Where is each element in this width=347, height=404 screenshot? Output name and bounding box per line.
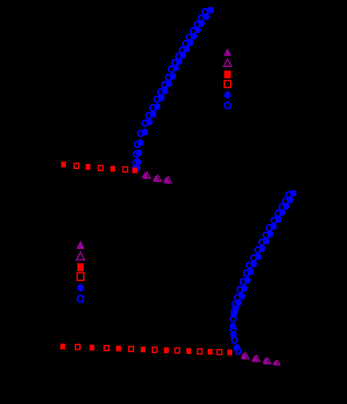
node T1-open-18 xyxy=(138,130,143,136)
node LB-ocirc xyxy=(77,295,83,302)
node T1-open-16 xyxy=(146,113,151,119)
node LB-osq xyxy=(77,273,84,280)
node B2-filled-9 xyxy=(164,347,169,353)
node B2-filled-15 xyxy=(227,350,232,356)
node T1-filled-18 xyxy=(142,129,148,136)
node B1-open-8 xyxy=(259,239,264,245)
node T1-open-17 xyxy=(142,120,147,126)
node LT-ftri xyxy=(223,48,231,55)
node LT-osq xyxy=(224,81,230,88)
node B2-filled-5 xyxy=(116,346,121,352)
node B1-filled-10 xyxy=(255,253,261,260)
node B1-filled-9 xyxy=(259,245,265,252)
node T1-open-13 xyxy=(158,89,163,95)
node T1-filled-19 xyxy=(137,139,143,146)
node T1-filled-20 xyxy=(136,149,142,156)
node T1-open-19 xyxy=(135,141,140,147)
node T3-filled-1 xyxy=(142,172,149,178)
node T1-open-6 xyxy=(183,41,188,47)
node T3-open-2 xyxy=(155,175,162,181)
node T2-open-4 xyxy=(98,166,103,171)
node B1-filled-15 xyxy=(239,293,245,300)
node LT-otri xyxy=(224,59,232,66)
node B1-filled-19 xyxy=(230,323,236,330)
node T1-open-14 xyxy=(154,96,159,102)
node T1-filled-21 xyxy=(135,158,141,165)
node B2-open-2 xyxy=(75,345,80,350)
node T1-open-4 xyxy=(191,28,196,34)
node T1-open-5 xyxy=(187,34,192,40)
node LB-ftri xyxy=(76,241,85,249)
node B1-filled-7 xyxy=(267,231,273,238)
node T1-filled-9 xyxy=(176,58,182,65)
node T2-open-6 xyxy=(123,167,128,172)
node T1-open-2 xyxy=(198,15,203,21)
node B1-filled-3 xyxy=(283,203,289,210)
node B3-filled-1 xyxy=(240,352,247,358)
node B1-filled-8 xyxy=(263,238,269,245)
node T1-open-10 xyxy=(169,66,174,72)
node LB-otri xyxy=(77,252,85,260)
node T1-open-22 xyxy=(133,166,138,172)
node T1-filled-10 xyxy=(173,64,179,71)
node B1-filled-21 xyxy=(234,344,240,351)
node B1-open-17 xyxy=(232,309,237,315)
node B1-open-16 xyxy=(233,302,238,308)
node T1-open-15 xyxy=(150,105,155,111)
node B1-open-4 xyxy=(275,210,280,216)
node B3-open-3 xyxy=(264,358,271,364)
node B1-open-3 xyxy=(279,204,284,210)
node T1-open-3 xyxy=(194,22,199,28)
node T2-filled-5 xyxy=(110,166,115,172)
node T1-filled-11 xyxy=(170,73,176,80)
node T1-filled-13 xyxy=(162,87,168,94)
node T3-open-1 xyxy=(144,172,151,178)
node B1-open-14 xyxy=(237,287,242,293)
node T2-filled-7 xyxy=(132,168,137,174)
node T1-filled-17 xyxy=(146,119,152,126)
node B1-open-15 xyxy=(235,295,240,301)
node B1-open-6 xyxy=(267,225,272,231)
node B2-open-12 xyxy=(197,349,202,354)
node T1-filled-8 xyxy=(180,52,186,59)
node LB-fsq xyxy=(77,263,83,271)
node B1-open-5 xyxy=(271,217,276,223)
node B1-filled-13 xyxy=(244,277,250,284)
node B1-filled-17 xyxy=(233,305,239,312)
node B2-filled-3 xyxy=(90,345,95,351)
node B1-filled-5 xyxy=(275,216,281,223)
node T1-open-11 xyxy=(166,75,171,81)
node B3-filled-4 xyxy=(273,360,278,364)
node LT-fcirc xyxy=(224,92,231,99)
node T1-open-8 xyxy=(176,53,181,59)
node B1-open-11 xyxy=(247,262,252,268)
node T1-filled-5 xyxy=(191,33,197,40)
node B2-filled-13 xyxy=(208,349,213,355)
node LB-fcirc xyxy=(77,284,84,291)
node T1-open-21 xyxy=(133,160,138,166)
node T1-filled-3 xyxy=(198,20,204,27)
node B1-open-20 xyxy=(232,337,237,343)
node T1-filled-4 xyxy=(195,26,201,33)
node B1-open-1 xyxy=(286,192,291,198)
node B1-open-21 xyxy=(235,348,240,354)
node T1-filled-7 xyxy=(183,45,189,52)
node T3-filled-2 xyxy=(153,175,160,181)
node T1-filled-14 xyxy=(158,95,164,102)
node T1-open-20 xyxy=(134,151,139,157)
node B1-filled-6 xyxy=(270,223,276,230)
node B1-open-7 xyxy=(263,232,268,238)
node T1-filled-22 xyxy=(134,165,140,172)
node B1-open-9 xyxy=(255,247,260,253)
node B3-filled-3 xyxy=(262,357,269,363)
node B3-open-4 xyxy=(274,361,279,365)
node B1-filled-20 xyxy=(230,331,236,338)
node T2-filled-1 xyxy=(61,162,66,168)
node T2-filled-3 xyxy=(86,164,91,170)
node T1-open-12 xyxy=(162,82,167,88)
node B1-open-10 xyxy=(251,255,256,261)
node T1-filled-16 xyxy=(150,111,156,118)
node T1-filled-2 xyxy=(203,13,209,20)
node LT-ocirc xyxy=(225,102,231,108)
node B1-filled-1 xyxy=(290,190,296,197)
node T1-filled-6 xyxy=(187,39,193,46)
node B1-filled-2 xyxy=(287,196,293,203)
node B2-open-14 xyxy=(217,350,222,355)
node T2-open-2 xyxy=(74,163,79,168)
node B2-filled-11 xyxy=(186,348,191,354)
node B1-filled-18 xyxy=(231,311,237,318)
node B1-open-19 xyxy=(231,326,236,332)
node T1-open-1 xyxy=(202,9,207,15)
node B1-open-12 xyxy=(244,270,249,276)
node T1-filled-15 xyxy=(154,103,160,110)
node B3-filled-2 xyxy=(252,355,259,361)
node B1-open-2 xyxy=(283,198,288,204)
node B3-open-1 xyxy=(242,353,249,359)
node T3-open-3 xyxy=(165,177,172,183)
node LT-fsq xyxy=(224,71,231,79)
node B1-filled-11 xyxy=(251,261,257,268)
node B1-filled-14 xyxy=(241,285,247,292)
node B2-open-4 xyxy=(104,346,109,351)
node B1-open-13 xyxy=(240,279,245,285)
node T1-filled-1 xyxy=(208,7,214,14)
node B2-filled-1 xyxy=(60,344,65,350)
node B1-filled-16 xyxy=(235,299,241,306)
node T1-filled-12 xyxy=(166,80,172,87)
node B2-open-10 xyxy=(175,348,180,353)
node B1-filled-12 xyxy=(248,268,254,275)
node B2-open-6 xyxy=(129,347,134,352)
node B1-open-18 xyxy=(231,316,236,322)
node T1-open-9 xyxy=(172,60,177,66)
node T3-filled-3 xyxy=(163,176,170,182)
node B2-open-8 xyxy=(152,347,157,352)
node B2-filled-7 xyxy=(141,347,146,353)
node B3-open-2 xyxy=(253,356,260,362)
node B1-filled-4 xyxy=(279,209,285,216)
node T1-open-7 xyxy=(179,47,184,53)
